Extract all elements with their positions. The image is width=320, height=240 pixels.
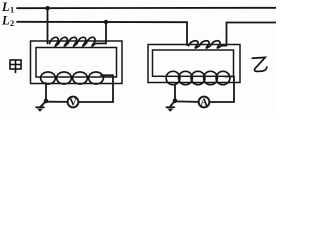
label L2 bbox=[1, 13, 14, 28]
wire L2 right segment bbox=[227, 22, 277, 24]
node junction above ground (right) bbox=[173, 98, 178, 103]
wire junction to ammeter bbox=[175, 100, 199, 103]
transformer 甲 core outer bbox=[31, 41, 123, 84]
label 乙 bbox=[252, 57, 267, 71]
wire connector to secondary right end of 甲 bbox=[101, 74, 113, 76]
wire right riser up of 乙 secondary bbox=[233, 77, 235, 103]
wire L1 line bbox=[17, 7, 276, 9]
node junction on L2 bbox=[104, 20, 108, 24]
wire L2 left segment bbox=[17, 21, 187, 23]
wire right riser up of 甲 secondary bbox=[112, 75, 114, 102]
svg-text:2: 2 bbox=[10, 18, 14, 28]
label L1 bbox=[1, 0, 14, 14]
ground (right) bbox=[167, 101, 176, 112]
svg-text:L: L bbox=[1, 0, 10, 14]
wire junction to voltmeter bbox=[46, 101, 68, 103]
svg-text:V: V bbox=[69, 98, 77, 109]
svg-text:L: L bbox=[1, 13, 10, 27]
wire lead from L2 to primary of transformer 甲 bbox=[105, 22, 107, 44]
wire lead from L1 to primary of transformer 甲 bbox=[47, 8, 49, 43]
secondary coil of 乙 bbox=[166, 71, 230, 84]
transformer 乙 core inner bbox=[153, 50, 234, 76]
voltmeter V bbox=[68, 97, 79, 108]
ammeter A bbox=[199, 97, 210, 108]
wire right lead of primary of 乙 bbox=[226, 23, 228, 46]
wire ammeter to right riser bbox=[209, 101, 234, 103]
node junction on L1 bbox=[45, 6, 49, 10]
label 甲 bbox=[10, 60, 21, 73]
transformer 甲 core inner bbox=[36, 48, 117, 78]
node junction above ground (left) bbox=[44, 99, 49, 104]
primary coil of 乙 bbox=[189, 41, 227, 48]
transformer 乙 core outer bbox=[148, 45, 240, 83]
wire connector to secondary right end of 乙 bbox=[225, 76, 234, 78]
wire secondary left lead of 乙 bbox=[174, 85, 176, 101]
svg-text:1: 1 bbox=[10, 4, 14, 14]
wire secondary left lead of 甲 bbox=[45, 83, 47, 101]
wire voltmeter to right riser bbox=[78, 101, 113, 103]
wire L2 corner lead to primary of 乙 bbox=[186, 22, 188, 45]
ground (left) bbox=[36, 101, 46, 112]
svg-text:A: A bbox=[200, 98, 208, 109]
primary coil of 甲 bbox=[50, 37, 107, 46]
secondary coil of 甲 bbox=[41, 72, 104, 84]
